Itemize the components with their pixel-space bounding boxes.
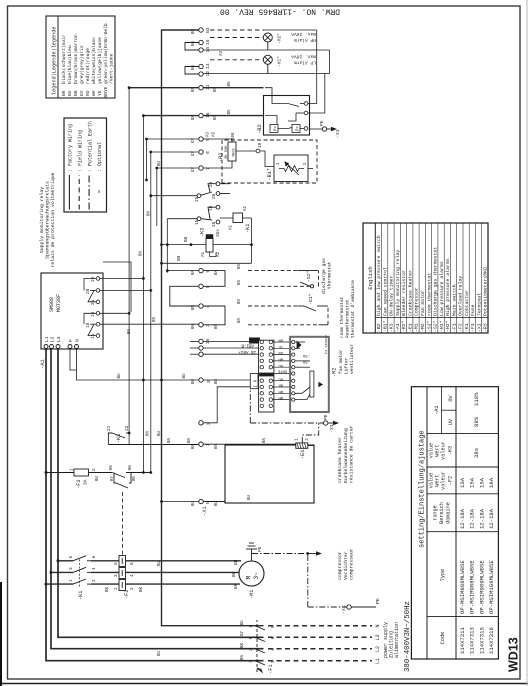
svg-text:-F2: -F2 [458,323,464,332]
svg-text:BU: BU [67,90,73,96]
svg-text:-F1: -F1 [268,664,274,674]
A1 relay changeover contact 25/28/26 [84,277,100,304]
svg-text:UV: UV [448,418,454,425]
svg-text:TH02: TH02 [233,148,237,157]
relay contact 25/28/26 (A1) [151,182,230,198]
terminal strip to fan connector wires [203,341,258,422]
svg-text:-S1*: -S1* [426,320,432,332]
svg-text:BN: BN [241,654,245,660]
svg-text:Terminal: Terminal [476,293,482,316]
optional sample [98,190,100,193]
svg-text:BN: BN [153,316,157,322]
svg-text:Supply monitoring relay: Supply monitoring relay [395,250,401,316]
svg-text:114X7311: 114X7311 [459,627,466,654]
svg-text:2K 50K: 2K 50K [225,145,229,159]
svg-text:HP Alarm: HP Alarm [294,37,316,43]
svg-text:L3: L3 [56,336,62,342]
X1 PE terminal near B2 [310,120,341,138]
svg-text:LP Alarm: LP Alarm [294,60,316,66]
svg-text:1: 1 [277,162,281,165]
svg-text:5: 5 [69,556,74,559]
svg-text:4: 4 [130,574,135,577]
svg-text:-F2: -F2 [448,476,454,485]
svg-text:5: 5 [205,285,211,288]
svg-text:BN: BN [278,338,283,342]
svg-text:5: 5 [114,562,119,565]
svg-text:1: 1 [248,660,254,663]
svg-text:RD: RD [85,90,91,96]
svg-text:BK: BK [234,583,239,589]
svg-text:BN: BN [238,317,242,323]
B2 internal contacts [265,88,308,131]
svg-text:BN: BN [73,90,79,96]
wire A1 N pin to terminal 2 [77,349,200,380]
English designator table [363,223,488,333]
crankcase heater label [337,425,355,483]
svg-text:yellow(gelb)jaune: yellow(gelb)jaune [97,37,103,84]
svg-text:26: 26 [209,181,214,187]
svg-text:BN: BN [188,437,192,443]
junction dots on rails at A1 drops [142,277,163,381]
svg-text:-E1: -E1 [300,450,306,459]
svg-text:97: 97 [110,476,115,482]
svg-text:High pressure alarms: High pressure alarms [445,258,451,316]
wire colour labels scattered [96,81,267,660]
svg-text:thermostat: thermostat [327,261,333,289]
svg-text:MGT38F: MGT38F [56,294,62,312]
connector sub-box N/1 [250,374,258,389]
svg-text:BN: BN [192,323,196,329]
supply labels [375,601,412,672]
svg-text:28: 28 [212,193,217,199]
svg-text:max. 28VA: max. 28VA [291,54,316,60]
fan speed control optional dashed box [222,140,317,183]
wire terminal N up to rail [162,501,199,503]
svg-text:18: 18 [86,322,91,328]
svg-text:19: 19 [258,142,263,148]
fuse F3 [70,468,98,489]
drawing number text [220,7,340,16]
wires R3 ends [203,139,232,168]
PE dash-dot fan zone [250,389,323,443]
svg-text:25: 25 [195,196,200,202]
svg-text:22: 22 [125,425,130,431]
svg-text:-A1: -A1 [434,406,440,415]
svg-text:L2: L2 [375,646,381,652]
svg-text:-M2: -M2 [420,323,426,332]
svg-text:Compressor: Compressor [414,287,420,316]
svg-text:YE: YE [278,344,283,348]
svg-text:-K3: -K3 [448,446,454,455]
svg-text:BU: BU [184,236,189,242]
svg-text:-B2: -B2 [257,124,263,134]
wire colour labels [192,28,219,506]
svg-text:88%: 88% [473,416,480,427]
svg-text:M: M [246,576,253,580]
svg-text:10K: 10K [232,132,236,140]
svg-text:OP-MSIM1G8MLW85E: OP-MSIM1G8MLW85E [488,560,495,614]
potentiometer R3 [218,132,237,162]
svg-text:BU: BU [158,560,162,566]
dashed feeds to alarm lamps [210,30,264,60]
wire label BU [177,236,189,261]
svg-text:1: 1 [114,587,119,590]
svg-text:BN: BN [147,430,151,436]
svg-text:N: N [255,379,259,382]
svg-text:-X1: -X1 [476,323,482,332]
svg-text:BN: BN [128,328,132,334]
svg-text:-M1: -M1 [249,590,255,599]
svg-text:BN: BN [215,323,219,329]
svg-text:BU: BU [96,475,100,481]
svg-text:12-18A: 12-18A [459,508,466,529]
svg-text:blue(blau)bleu: blue(blau)bleu [67,45,73,84]
svg-text:WH: WH [278,389,283,393]
svg-text:BN: BN [192,40,196,46]
fan box internals [295,342,322,400]
svg-text:-H2*: -H2* [277,33,283,44]
svg-text:: Factory Wiring: : Factory Wiring [68,124,74,172]
svg-text:relais de protection voltmétri: relais de protection voltmétrique [50,172,56,267]
wire A1 contact 16 routing [103,262,131,312]
fan speed control B1 [267,155,308,182]
svg-text:BK: BK [61,90,67,96]
svg-text:114X7315: 114X7315 [478,627,485,654]
svg-text:Spannungsüberwachungsrelais: Spannungsüberwachungsrelais [45,181,51,259]
neutral rail N [162,30,264,626]
wire B1 pin2 down [308,168,313,170]
svg-text:BU: BU [241,620,245,626]
factory wiring sample [68,175,70,210]
svg-text:A1: A1 [202,251,206,257]
svg-text:Fuse: Fuse [470,304,476,316]
svg-text:A3: A3 [220,50,224,56]
wire terminal N into box [203,501,225,503]
wires K1 to F2 [91,561,119,584]
wire-type legend box [64,118,107,212]
title WD13 [507,637,521,672]
svg-text:6: 6 [130,562,135,565]
svg-text:-F3: -F3 [76,480,82,489]
svg-text:1: 1 [255,385,259,388]
junction dots small [128,86,159,169]
fan box S8 labels [302,335,329,363]
svg-text:Bereich: Bereich [439,502,445,524]
svg-text:GY: GY [79,90,85,96]
phase rail L2 [51,349,264,649]
svg-text:WH: WH [278,357,283,361]
svg-text:6: 6 [205,270,211,273]
control lines horizontal [129,88,167,473]
svg-text:1: 1 [69,579,74,582]
PE dash-dot net [252,554,347,608]
wire terminal 8 up [151,151,199,153]
lamp H2 (HP alarm) [263,33,272,50]
svg-text:alimentation: alimentation [394,622,400,658]
svg-text:green-yellow(GrBn-Gelb: green-yellow(GrBn-Gelb [103,23,109,84]
svg-text:114X7316: 114X7316 [488,627,495,654]
wires from A1 contacts down [100,279,199,325]
svg-text:-S1*: -S1* [308,293,314,305]
control feed tap [45,471,48,474]
svg-text:BN: BN [192,443,196,449]
svg-text:BK: BK [241,642,245,648]
svg-text:-R2*: -R2* [401,320,407,332]
svg-text:-K3: -K3 [200,228,206,237]
svg-text:WD13: WD13 [507,637,521,672]
svg-text:18: 18 [212,221,217,227]
K1 auxiliary contact 21/22 [108,433,201,445]
svg-text:-S2*: -S2* [433,320,439,332]
svg-text:thermostat d'ambiance: thermostat d'ambiance [350,280,356,338]
svg-text:38s: 38s [473,448,480,458]
junction dots motor taps [45,559,60,585]
lamp H1 (LP alarm) [263,55,272,73]
compressor motor M1 [239,561,264,586]
compressor label [338,548,355,580]
A1 relay changeover contact 15/18/16 [84,311,100,337]
svg-text:A5: A5 [213,131,217,137]
svg-text:to sensor: to sensor [324,335,329,354]
svg-text:BN: BN [168,437,172,443]
wire rail to fuse F3 [46,472,74,474]
svg-text:N: N [75,339,81,342]
svg-text:Raumthermostat: Raumthermostat [345,299,351,338]
svg-text:2: 2 [130,587,135,590]
svg-text:Supply monitoring relay: Supply monitoring relay [39,187,45,253]
svg-text:8: 8 [205,151,211,154]
connector labels AB1 [238,337,260,353]
svg-text:BU: BU [158,160,162,166]
svg-text:Verdichter: Verdichter [343,551,349,580]
svg-text:ON-delay timer: ON-delay timer [389,276,395,316]
svg-text:DRW. NO. -11RB465 REV. 00: DRW. NO. -11RB465 REV. 00 [220,7,340,16]
wire terminal 1 to heater [203,444,314,445]
svg-text:35s: 35s [216,229,221,237]
svg-text:GNYE: GNYE [103,86,109,97]
svg-text:PE: PE [257,546,263,552]
F2 auxiliary contact 97/98 [114,473,131,489]
fan motor M2 box [290,337,329,412]
svg-text:OP-MSIM988MLW85E: OP-MSIM988MLW85E [469,560,476,614]
svg-text:résistance de carter: résistance de carter [349,425,355,483]
svg-text:: Field Wiring: : Field Wiring [77,130,83,172]
svg-text:BN: BN [192,28,196,34]
svg-text:BN: BN [234,559,239,565]
svg-text:BU: BU [192,378,196,384]
svg-text:high and low pressure switch: high and low pressure switch [376,235,382,316]
svg-text:1: 1 [296,438,300,441]
svg-text:BK: BK [140,586,144,592]
svg-text:GN: GN [278,350,283,354]
wire A1 P pin [70,349,77,370]
svg-text:black(schwarz)noir: black(schwarz)noir [61,34,67,84]
supply monitoring relay A1 box [40,273,103,369]
contactor coil K1 [230,205,252,233]
svg-text:2: 2 [304,162,308,165]
svg-text:Main switch: Main switch [451,284,457,316]
jumper bracket 5-4 [170,286,199,306]
svg-text:BK: BK [278,383,283,387]
pair link 6-5 below [203,271,225,287]
svg-text:2: 2 [206,380,212,383]
svg-text:BN: BN [238,298,242,304]
svg-text:BN: BN [263,437,267,443]
svg-text:-M1: -M1 [414,323,420,332]
X1 PE terminal bottom [341,598,381,614]
connector pins [260,340,272,407]
field wiring sample [78,175,80,210]
svg-text:BU: BU [232,571,237,577]
svg-text:Lüfter: Lüfter [344,357,350,374]
F2 trip link dashed [122,490,124,555]
wires terminals 11/16 into B2 [203,88,263,116]
svg-text:Overload relay: Overload relay [458,276,464,316]
svg-text:BU: BU [278,376,283,380]
svg-text:room thermostat: room thermostat [339,296,345,338]
jumper bracket 13-12 [185,67,199,75]
svg-text:English: English [367,266,374,290]
svg-text:4: 4 [205,305,211,308]
connector to fan box wires [273,342,292,400]
svg-text:-B1*: -B1* [267,168,273,180]
svg-text:BN: BN [238,279,242,285]
svg-text:6: 6 [92,556,97,559]
svg-text:25: 25 [91,299,96,305]
B2 pressure elements [270,125,301,133]
svg-text:: Potential Earth: : Potential Earth [87,121,93,172]
svg-text:YE: YE [97,90,103,96]
B1 potentiometer symbol [279,162,304,175]
svg-text:discharge gas: discharge gas [321,258,327,294]
svg-text:Type: Type [440,569,446,581]
svg-text:15: 15 [195,219,200,225]
svg-text:-F2: -F2 [124,590,130,599]
compressor enclosure box [225,445,314,503]
svg-text:A2: A2 [217,251,221,257]
svg-text:5: 5 [248,637,254,640]
terminal numbers [202,27,212,516]
svg-text:legend|Legende|legende: legend|Legende|legende [52,27,58,96]
svg-text:BU: BU [183,373,187,379]
svg-text:114X7313: 114X7313 [469,627,476,654]
svg-text:P>: P> [274,125,279,131]
jumper bracket 15-14 [185,43,199,51]
R3 wiper to terminal 19 [236,149,277,166]
svg-text:-S8: -S8 [302,353,310,357]
svg-text:Discharge gas thermostat: Discharge gas thermostat [433,247,439,316]
svg-text:GY: GY [192,166,196,172]
svg-text:red(rot)rouge: red(rot)rouge [85,48,91,84]
svg-text:3: 3 [69,567,74,570]
svg-text:ventilateur: ventilateur [349,343,355,374]
svg-text:3~: 3~ [253,572,260,580]
svg-text:L1: L1 [44,336,50,342]
svg-text:Kurbelwannenheizung: Kurbelwannenheizung [343,428,349,483]
svg-text:white(weiss)blanc: white(weiss)blanc [91,37,97,84]
svg-text:96: 96 [128,465,133,471]
svg-text:-E1: -E1 [408,323,414,332]
overload relay F2 [119,556,126,591]
svg-text:Potentiometer10KΩ: Potentiometer10KΩ [483,267,489,316]
svg-text:2: 2 [92,579,97,582]
svg-text:-S2*: -S2* [306,270,312,282]
svg-text:12-18A: 12-18A [478,508,485,529]
contactor K1 main contacts [73,556,91,587]
svg-text:OP-MSIM888MLW85E: OP-MSIM888MLW85E [459,560,466,614]
svg-text:12-18A: 12-18A [488,508,495,529]
pressure switch B2 box [257,96,310,136]
wire colour labels fan loom [277,338,287,400]
svg-text:compresseur: compresseur [350,548,355,580]
svg-text:grey(grey)gris: grey(grey)gris [79,45,85,84]
svg-text:BU: BU [158,430,162,436]
fan box pins [292,340,295,401]
svg-text:OP-MSIM989MLW85E: OP-MSIM989MLW85E [478,560,485,614]
pair link 4-3 below [203,306,225,325]
svg-text:-H1*: -H1* [277,56,283,67]
svg-text:BK: BK [106,586,110,592]
svg-text:AB1-B: AB1-B [241,343,254,347]
wires K1 coil [162,218,252,263]
lamp return wires via terminals 14/12 [203,30,329,113]
svg-text:-R3: -R3 [218,153,224,162]
settings table [411,387,498,659]
svg-text:-F1: -F1 [451,323,457,332]
svg-text:-K1: -K1 [78,591,84,600]
svg-text:GY: GY [241,630,245,636]
svg-text:BU: BU [215,378,219,384]
svg-text:: Optional: : Optional [97,142,103,172]
room thermostat S1 [298,306,328,325]
svg-text:3: 3 [248,648,254,651]
svg-text:7: 7 [205,167,211,170]
optional field wiring to thermostats (dashed) [248,271,328,325]
terminal strip X1 [199,28,203,504]
svg-text:BU: BU [177,255,182,261]
svg-text:L3: L3 [375,634,381,640]
wire terminal 6 to K3 line [167,270,199,272]
svg-text:PE: PE [319,120,325,126]
stubs terminals 18/19/20 [190,341,199,354]
svg-text:118%: 118% [473,392,480,406]
svg-text:-F3: -F3 [470,323,476,332]
svg-text:-X1: -X1 [329,424,335,433]
svg-text:Fan motor: Fan motor [420,290,426,316]
svg-text:3: 3 [205,324,211,327]
phase rail L3 [58,349,264,637]
svg-text:2B AB1+: 2B AB1+ [238,349,256,353]
svg-text:BN: BN [192,64,196,70]
discharge gas thermostat S2 [298,271,319,288]
svg-text:98: 98 [132,476,137,482]
svg-text:-M2: -M2 [332,368,338,377]
svg-text:brown(braun)marron: brown(braun)marron [73,34,79,84]
svg-text:range: range [433,505,439,521]
svg-text:compressor: compressor [338,551,343,580]
svg-text:-X1: -X1 [335,129,341,138]
supply monitoring relay note [39,172,56,267]
F2 auxiliary contact 95/96 [112,473,151,478]
svg-text:Fan speed control: Fan speed control [382,267,388,316]
svg-text:9: 9 [205,138,211,141]
wire terminal 16 up [143,115,198,117]
phase rail L1 [46,349,264,661]
svg-text:15A: 15A [469,477,476,488]
svg-text:-S8: -S8 [302,359,310,363]
svg-text:GNYE: GNYE [277,369,287,373]
svg-text:13: 13 [205,63,211,69]
